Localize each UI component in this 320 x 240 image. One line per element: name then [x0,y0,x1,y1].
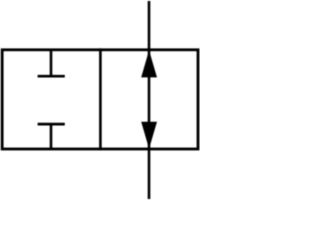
arrowhead up [141,50,157,77]
blocked port T (upper) [38,75,65,78]
position divider [99,48,102,150]
valve body outline (two-position envelope) [2,50,198,149]
blocked port T (lower) [38,123,65,126]
arrowhead down [141,122,157,149]
wire: vertical flow line through right position [148,1,151,199]
2-position directional control valve symbol [0,0,200,200]
wire: upper blocked-port stem [50,50,53,76]
wire: lower blocked-port stem [50,124,53,149]
